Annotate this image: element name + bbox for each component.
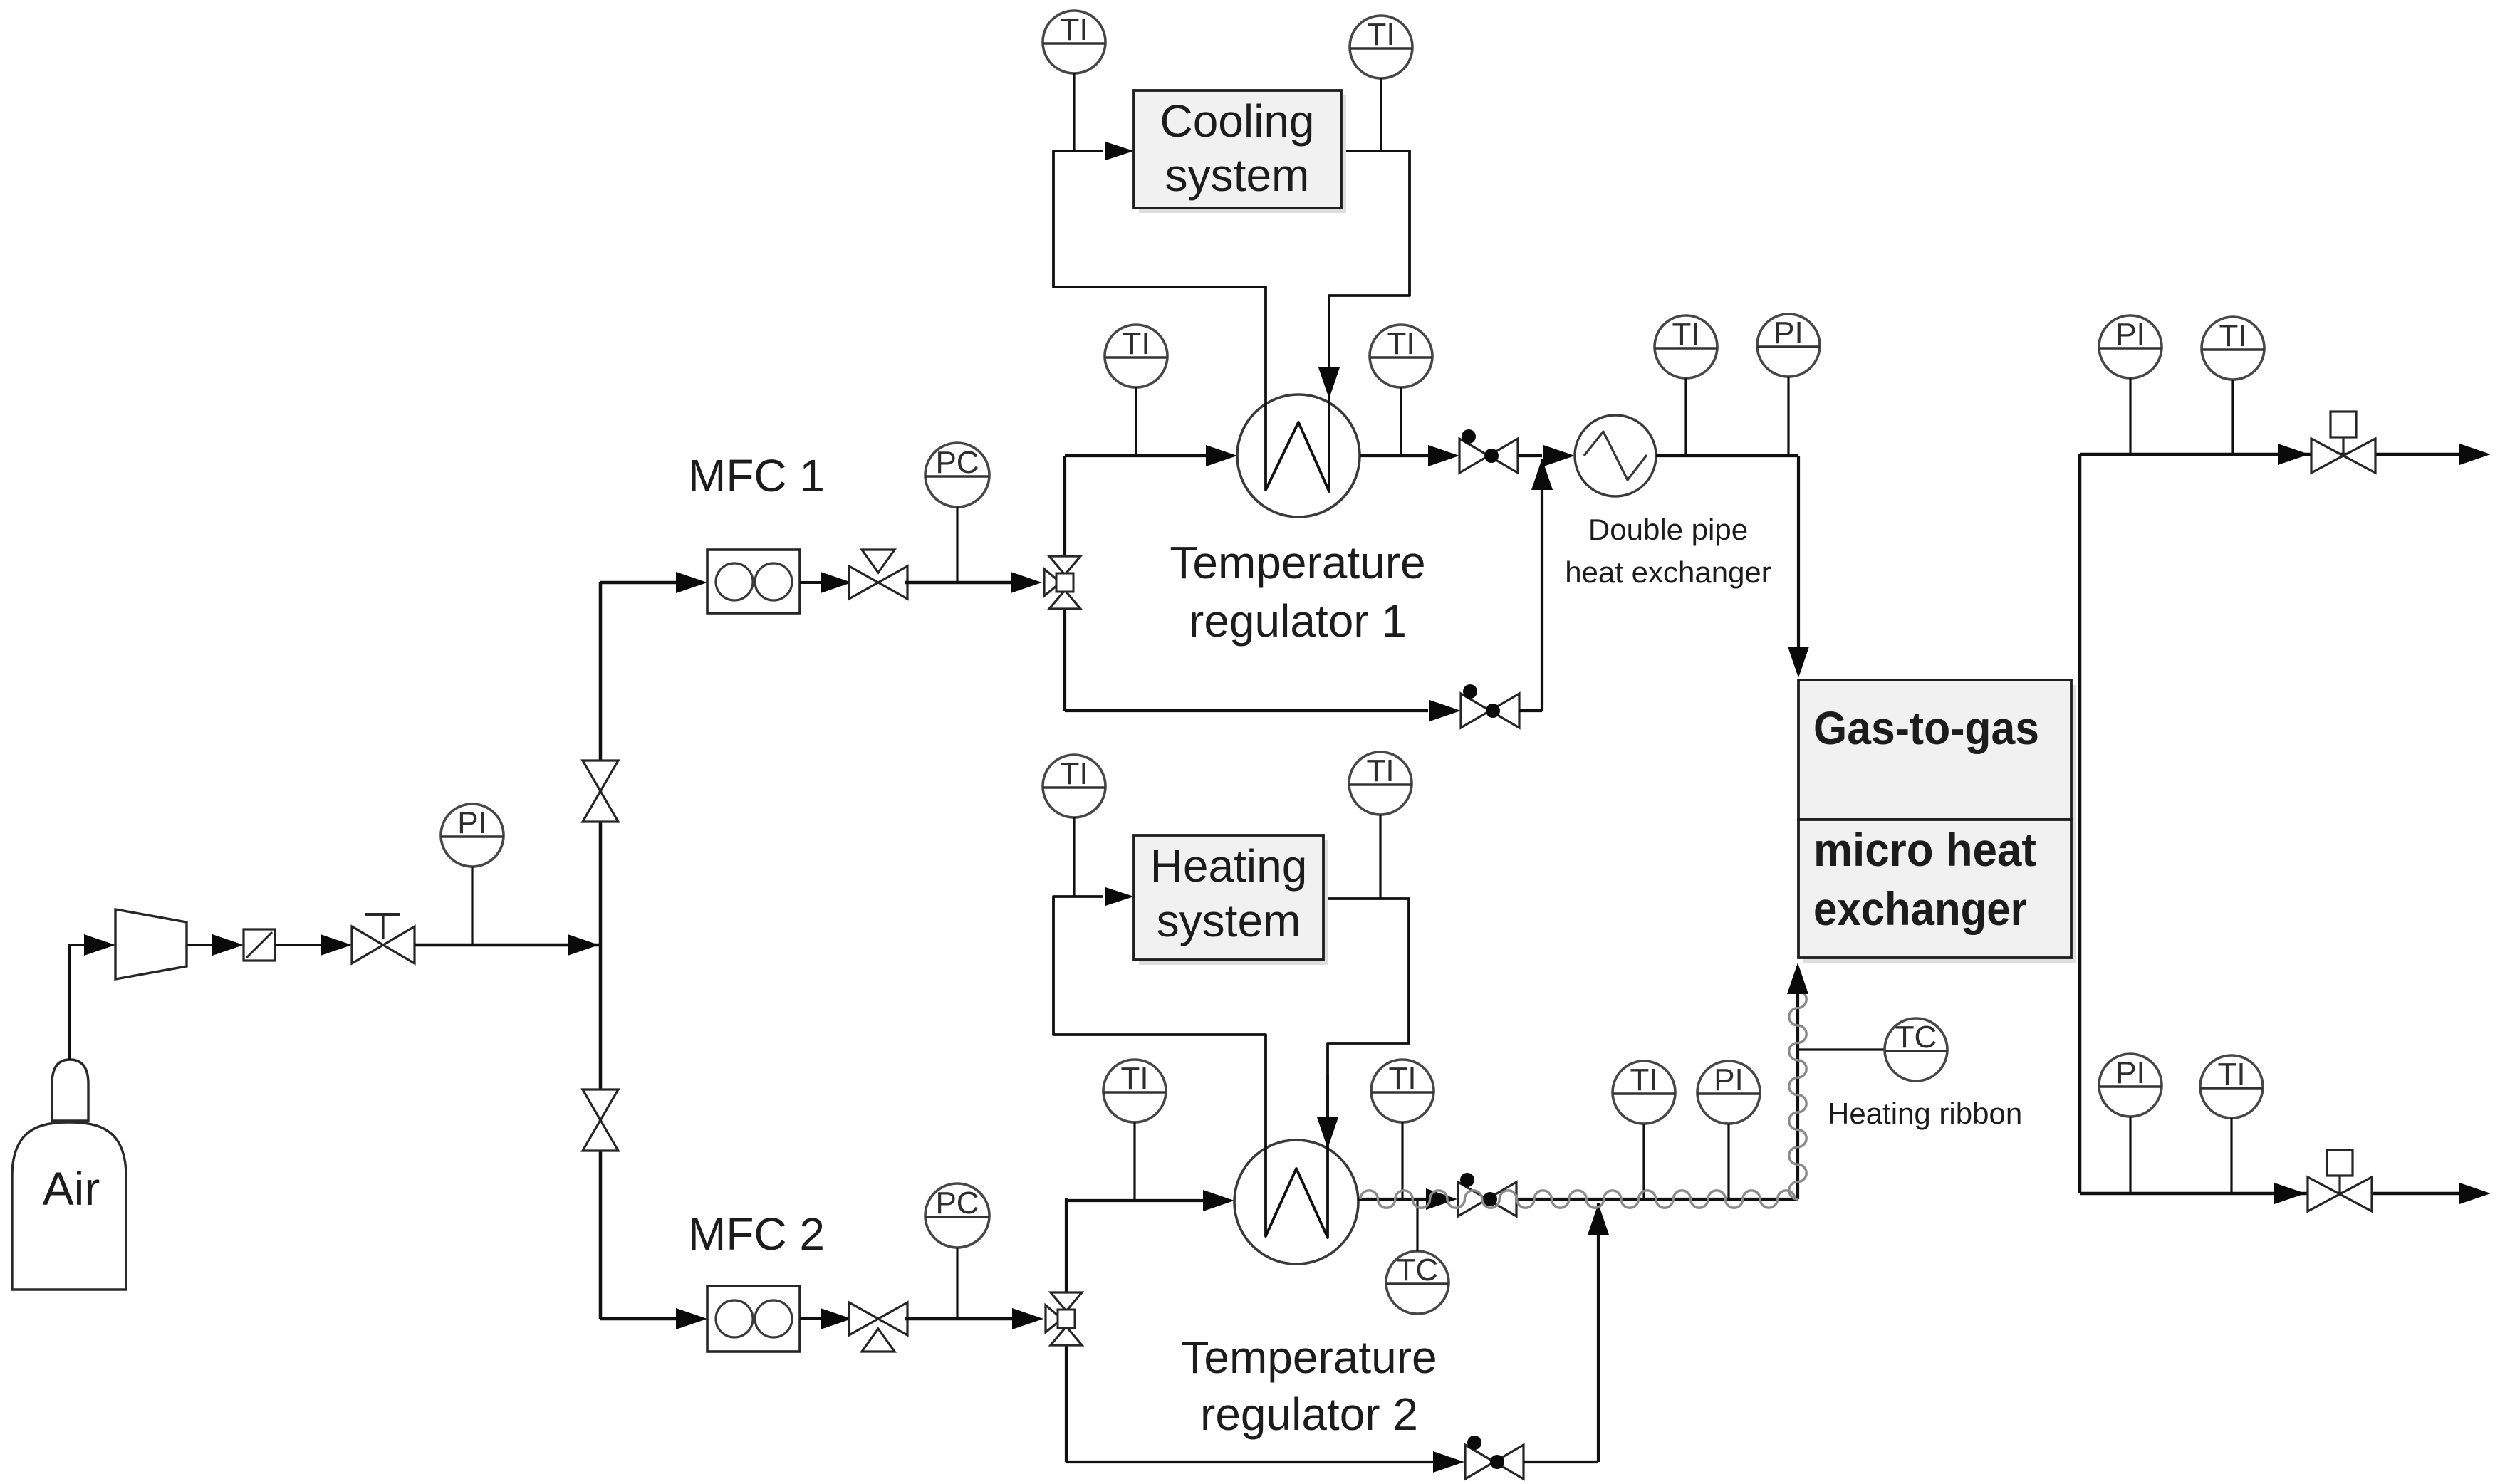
bypass 1 riser: [1541, 459, 1543, 711]
svg-text:TC: TC: [1397, 1253, 1439, 1287]
branch vertical line: [599, 582, 603, 1319]
svg-text:micro heat: micro heat: [1813, 823, 2036, 876]
svg-text:TI: TI: [1388, 1061, 1416, 1096]
TI gauge cooling outlet: [1350, 16, 1412, 78]
bypass 2 valve with dots: [1465, 1445, 1494, 1479]
isolation valve upper branch: [583, 761, 618, 791]
top output line: [2080, 453, 2460, 456]
svg-text:PI: PI: [1714, 1062, 1744, 1097]
svg-text:heat exchanger: heat exchanger: [1565, 555, 1771, 589]
heating ribbon wavy overlay vertical: [1789, 991, 1806, 1199]
wire bypass valve to riser: [1519, 709, 1542, 712]
arrow up at bypass 1 junction: [1531, 459, 1553, 490]
arrow into three-way valve 1: [821, 572, 852, 593]
wire double pipe HX to corner: [1656, 454, 1798, 457]
arrow into MFC 1: [676, 572, 707, 593]
TC gauge below regulator 2 outlet: [1386, 1251, 1449, 1314]
junction three-way valve regulator 1 loop: [1049, 556, 1080, 575]
svg-text:TI: TI: [1366, 753, 1394, 788]
wire valve to branch point: [415, 944, 600, 947]
regulator 1 loop left vertical: [1063, 456, 1066, 711]
double pipe heat exchanger circle: [1575, 415, 1656, 496]
arrow into regulator 1 outlet valve: [1428, 445, 1459, 466]
TI gauge heating inlet: [1043, 755, 1105, 817]
arrow into regulator 1: [1206, 445, 1237, 466]
PI gauge top output: [2099, 315, 2162, 378]
wire outlet valve 2 to ribbon line: [1516, 1198, 1542, 1201]
temperature regulator 2 (heat exchanger circle): [1234, 1140, 1358, 1264]
heating ribbon riser: [1796, 977, 1799, 1199]
arrow into MFC 2: [676, 1308, 707, 1329]
svg-text:Double pipe: Double pipe: [1588, 513, 1748, 546]
air cylinder (Air gas bottle): [12, 1122, 126, 1290]
heating loop piping: [1053, 897, 1328, 1238]
wire three-way valve to regulator-2 junction: [905, 1317, 1016, 1321]
TI gauge cooling inlet: [1043, 11, 1105, 73]
svg-text:TI: TI: [2219, 318, 2246, 353]
TI gauge regulator 2 outlet: [1371, 1060, 1434, 1122]
wire MFC 1 to three-way valve: [800, 581, 825, 584]
heating system box: [1139, 840, 1328, 965]
svg-text:TI: TI: [1120, 1061, 1148, 1096]
heating ribbon line to corner: [1542, 1198, 1798, 1201]
arrow into regulator 2 outlet valve: [1426, 1188, 1457, 1210]
arrow into bottom output valve: [2274, 1183, 2306, 1204]
svg-text:Heating: Heating: [1150, 840, 1308, 892]
svg-text:TI: TI: [2217, 1057, 2245, 1092]
arrow up at bypass 2 junction: [1588, 1203, 1609, 1235]
svg-text:Air: Air: [43, 1162, 100, 1215]
arrow into three-way valve 2: [821, 1308, 852, 1329]
wire branch to MFC 1: [600, 581, 677, 585]
TI gauge bottom output: [2200, 1055, 2263, 1118]
svg-text:system: system: [1157, 895, 1301, 946]
svg-text:TI: TI: [1387, 326, 1415, 361]
svg-text:TC: TC: [1895, 1020, 1937, 1055]
temperature regulator 1 (heat exchanger circle): [1237, 394, 1360, 517]
three-way valve after MFC 1 (top port): [849, 566, 878, 599]
arrow into pressure regulator: [84, 934, 115, 956]
TI gauge regulator 1 outlet: [1370, 325, 1432, 387]
svg-text:system: system: [1165, 150, 1310, 201]
heating ribbon wavy overlay horizontal: [1360, 1191, 1795, 1208]
PC gauge on MFC 2 line: [925, 1183, 989, 1248]
TI gauge top output: [2202, 317, 2264, 380]
wire filter to shut-off valve: [275, 944, 322, 946]
regulator 1 bypass bottom line: [1065, 709, 1428, 712]
top output control valve with actuator: [2311, 439, 2343, 473]
TI gauge heating outlet: [1349, 752, 1412, 815]
regulator 1 outlet line: [1360, 454, 1432, 457]
arrow into junction three-way valve 1: [1011, 572, 1042, 593]
wire bypass 2 valve to riser: [1524, 1461, 1598, 1463]
gas-to-gas micro heat exchanger boxes: [1803, 685, 2076, 963]
arrow into junction three-way valve 2: [1012, 1308, 1043, 1329]
top output end arrow: [2459, 444, 2491, 465]
svg-text:Temperature: Temperature: [1181, 1332, 1437, 1383]
svg-text:PI: PI: [457, 805, 487, 840]
arrow into shut-off valve: [321, 934, 352, 956]
bypass 2 riser: [1597, 1203, 1600, 1462]
TI gauge regulator 1 inlet: [1105, 325, 1167, 387]
cooling system box: [1139, 95, 1346, 213]
filter (square with diagonal): [244, 929, 275, 961]
svg-text:exchanger: exchanger: [1813, 882, 2027, 935]
TI gauge after double pipe HX: [1655, 315, 1717, 378]
junction three-way valve regulator 2 loop: [1051, 1292, 1082, 1311]
down pipe into gas-to-gas exchanger: [1797, 456, 1800, 662]
PC gauge on MFC 1 line: [925, 443, 989, 507]
wire MFC 2 to three-way valve: [800, 1317, 825, 1320]
svg-text:Temperature: Temperature: [1170, 537, 1425, 588]
arrow into gas-to-gas exchanger top: [1788, 647, 1809, 678]
arrow into double pipe heat exchanger: [1543, 445, 1575, 466]
svg-text:TI: TI: [1672, 317, 1699, 352]
arrow into regulator 2: [1203, 1190, 1234, 1211]
regulator 2 outlet line: [1358, 1198, 1432, 1201]
wire cylinder to pressure regulator: [70, 945, 84, 1060]
svg-text:regulator 2: regulator 2: [1200, 1389, 1418, 1440]
wire outlet valve to bypass junction: [1518, 454, 1542, 457]
pressure regulator (reducer trapezoid): [115, 909, 187, 979]
PI gauge on air line: [441, 804, 504, 867]
MFC 2 (mass flow controller box): [707, 1286, 800, 1352]
wire regulator to filter: [187, 944, 214, 946]
svg-text:TI: TI: [1367, 17, 1395, 52]
PI gauge after bypass 2 junction: [1697, 1061, 1760, 1124]
PI gauge after double pipe HX: [1757, 314, 1820, 377]
arrow into filter: [212, 934, 244, 956]
arrow up into micro heat exchanger bottom: [1787, 963, 1808, 994]
regulator 1 outlet valve with dots: [1459, 439, 1489, 473]
svg-text:PI: PI: [2115, 1055, 2145, 1090]
TI gauge regulator 2 inlet: [1103, 1060, 1166, 1122]
arrow down into regulator 2 circle: [1317, 1117, 1338, 1149]
svg-text:regulator 1: regulator 1: [1189, 595, 1407, 647]
svg-text:Cooling: Cooling: [1160, 95, 1314, 147]
arrow down into regulator 1 circle: [1318, 367, 1340, 399]
PI gauge bottom output: [2099, 1054, 2162, 1117]
TC gauge heating ribbon: [1798, 1048, 1885, 1050]
regulator 1 inlet line: [1065, 454, 1210, 457]
arrow into branch point: [568, 934, 599, 956]
arrow into cooling system: [1105, 142, 1134, 160]
svg-text:PI: PI: [2115, 317, 2145, 352]
svg-text:PC: PC: [935, 1186, 979, 1221]
regulator 2 bypass bottom line: [1066, 1461, 1436, 1463]
MFC 1 (mass flow controller box): [707, 550, 800, 613]
shut-off valve with T-handle: [352, 926, 383, 963]
isolation valve lower branch: [583, 1090, 618, 1120]
svg-text:TI: TI: [1060, 756, 1088, 791]
bottom output control valve with actuator: [2308, 1177, 2340, 1211]
svg-text:Heating ribbon: Heating ribbon: [1828, 1097, 2022, 1130]
regulator 2 loop left vertical: [1065, 1198, 1068, 1462]
bottom output end arrow: [2459, 1183, 2491, 1204]
svg-text:PI: PI: [1774, 315, 1803, 350]
bottom output line: [2080, 1192, 2460, 1196]
svg-text:MFC 1: MFC 1: [688, 450, 825, 501]
wire three-way valve to regulator-1 junction: [905, 581, 1014, 585]
svg-text:TI: TI: [1630, 1062, 1657, 1097]
arrow into bypass 2 valve: [1433, 1451, 1464, 1473]
regulator 2 outlet valve with dots: [1458, 1182, 1487, 1216]
bypass 1 valve with dots: [1461, 694, 1490, 728]
cooling loop piping: [1053, 151, 1329, 491]
svg-text:PC: PC: [935, 445, 979, 480]
arrow into heating system: [1105, 887, 1134, 906]
right vertical pipe: [2078, 454, 2082, 1193]
svg-text:Gas-to-gas: Gas-to-gas: [1813, 701, 2039, 754]
wire branch to MFC 2: [600, 1317, 677, 1321]
three-way valve after MFC 2 (bottom port): [849, 1302, 878, 1335]
svg-text:TI: TI: [1122, 326, 1150, 361]
regulator 2 inlet line: [1066, 1199, 1207, 1202]
TI gauge after bypass 2 junction: [1613, 1061, 1675, 1124]
arrow into bypass 1 valve: [1429, 700, 1461, 721]
svg-text:MFC 2: MFC 2: [688, 1208, 825, 1260]
svg-text:TI: TI: [1060, 12, 1088, 47]
arrow into top output valve: [2278, 444, 2309, 465]
